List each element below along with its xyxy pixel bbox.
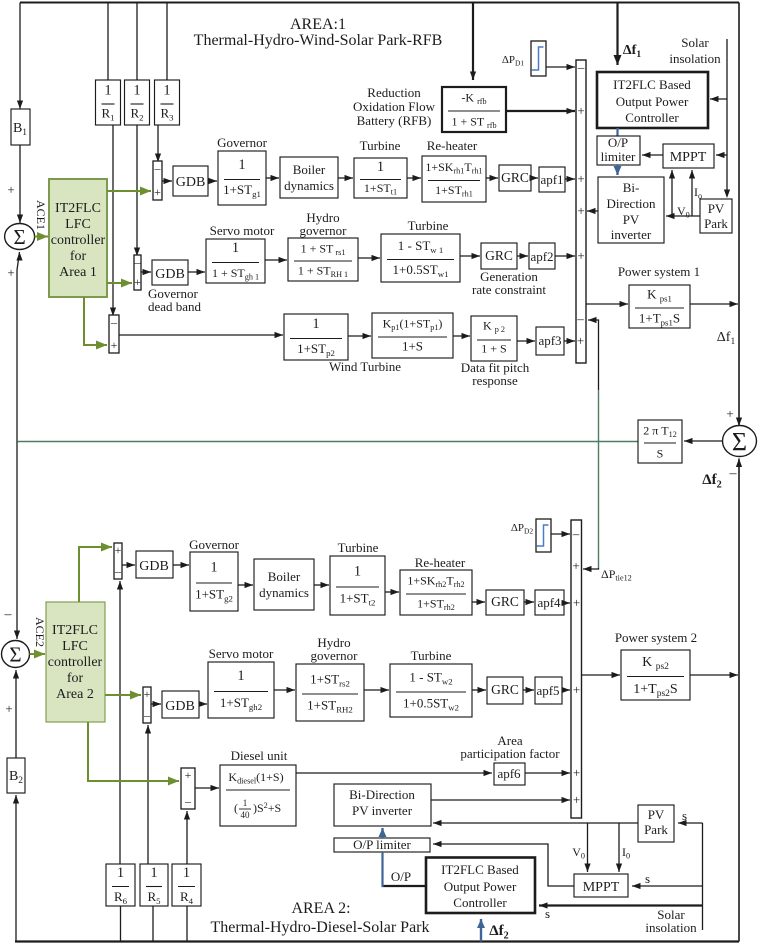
block hydro governor2 <box>296 664 364 721</box>
block 1/R5 <box>140 864 168 906</box>
wire B1 to sum1 <box>19 145 21 223</box>
wire turbine h2 to GRC5 <box>472 689 486 691</box>
svg-text:+: + <box>134 275 141 289</box>
wire sum to GDB1 <box>162 180 172 182</box>
svg-text:PV: PV <box>708 201 725 216</box>
block 1/R3 <box>155 80 180 125</box>
wire 1/R5 up to hydro sum2 <box>147 725 149 864</box>
block GDB thermal1 <box>173 166 208 196</box>
svg-text:s: s <box>545 906 550 921</box>
wire 1/R6 up to thermal sum2 <box>119 581 121 864</box>
wire GDB to servo2 <box>199 703 207 705</box>
wire 1/R2 down to hydro sum <box>136 125 138 256</box>
summing block hydro2 <box>143 687 151 723</box>
svg-text:–: – <box>4 607 13 622</box>
svg-text:apf4: apf4 <box>537 595 561 610</box>
svg-text:+: + <box>577 103 584 118</box>
svg-text:1: 1 <box>243 798 248 808</box>
wire apf5 to bar2 <box>562 689 570 691</box>
block B2 <box>7 758 25 793</box>
block GRC thermal2 <box>486 590 524 615</box>
svg-text:ACE2: ACE2 <box>33 617 47 647</box>
svg-text:Kdiesel(1+S): Kdiesel(1+S) <box>228 770 283 786</box>
svg-text:+: + <box>185 768 192 782</box>
wire B2 to sum2 <box>15 670 17 758</box>
wire GDB to servo1 <box>188 271 205 273</box>
wire drop to 1/R1 <box>107 3 109 81</box>
block hydro turbine2 <box>390 664 472 717</box>
svg-text:dynamics: dynamics <box>284 178 334 193</box>
svg-text:inverter: inverter <box>611 227 652 242</box>
block OP limiter area2 <box>334 838 430 852</box>
svg-text:GRC: GRC <box>485 248 513 263</box>
svg-text:IT2FLC Based: IT2FLC Based <box>441 862 519 877</box>
svg-text:–: – <box>110 315 118 329</box>
svg-text:1 + S: 1 + S <box>481 342 506 356</box>
svg-text:MPPT: MPPT <box>670 150 707 165</box>
block apf5 <box>535 677 562 704</box>
wire wind sum to wind turbine <box>119 334 283 336</box>
wire I0 tap area1 <box>691 170 693 216</box>
wire RFB to bar1 <box>506 110 575 112</box>
wire servo2 to hydro governor2 <box>274 689 295 691</box>
svg-text:+: + <box>154 185 161 199</box>
svg-text:1+Tps1S: 1+Tps1S <box>639 311 680 328</box>
wire apf4 to bar2 <box>564 602 570 604</box>
svg-text:1: 1 <box>163 83 170 99</box>
svg-text:controller: controller <box>48 655 103 670</box>
summing block diesel <box>181 768 195 809</box>
svg-text:1: 1 <box>232 240 239 256</box>
wire PV park2 to inverter2 <box>433 822 638 824</box>
wire boiler2 to turbine2 <box>314 584 329 586</box>
block OP limiter area1 <box>597 136 640 165</box>
svg-text:Turbine: Turbine <box>338 540 379 555</box>
svg-text:+: + <box>573 595 580 610</box>
block RFB <box>442 87 506 132</box>
block Bi-Direction PV inverter area1 <box>598 177 664 243</box>
wire OPC1 to OP limiter1 blue <box>616 128 618 136</box>
block hydro governor1 <box>288 238 358 281</box>
svg-text:+: + <box>5 701 12 716</box>
svg-text:LFC: LFC <box>62 639 88 654</box>
summing bar area2 <box>571 520 582 818</box>
block boiler dynamics 1 <box>280 157 338 198</box>
svg-text:for: for <box>67 671 84 686</box>
wire MPPT2 to limiter2 <box>433 844 574 886</box>
wire Df1 drop to OPC1 <box>616 3 618 66</box>
svg-text:participation factor: participation factor <box>460 746 560 761</box>
wire apf2 to bar1 <box>555 255 575 257</box>
wire drop to 1/R3 <box>166 3 168 81</box>
svg-text:1: 1 <box>377 159 384 175</box>
svg-text:GDB: GDB <box>165 699 195 714</box>
wire solar2 to OPC2 thick <box>539 904 703 906</box>
block apf2 <box>529 243 555 269</box>
block GRC hydro1 <box>481 243 517 269</box>
svg-text:1: 1 <box>104 83 111 99</box>
svg-text:insolation: insolation <box>645 920 697 935</box>
svg-text:1: 1 <box>354 564 361 580</box>
block boiler dynamics 2 <box>254 559 314 610</box>
wire drop to B1 <box>19 3 21 110</box>
wire ACE1 to controller1 <box>35 236 48 238</box>
svg-text:Governor: Governor <box>217 135 267 150</box>
load step DPD2 <box>536 519 551 552</box>
svg-text:Output Power: Output Power <box>616 94 689 109</box>
wire I0 tap area2 <box>618 823 620 872</box>
svg-text:40: 40 <box>241 810 251 820</box>
svg-text:–: – <box>154 161 162 175</box>
wire reheater1 to GRC1 <box>486 177 498 179</box>
block IT2FLC Based Output Power Controller area2 <box>426 858 535 914</box>
wire tie sum to T12 box <box>684 440 723 442</box>
wire ACE2 to controller2 <box>30 653 46 655</box>
summing bar area1 <box>576 60 586 363</box>
wire solar insolation line area2 <box>702 823 704 930</box>
wire PV park1 to inverter1 <box>666 215 700 217</box>
svg-text:Bi-Direction: Bi-Direction <box>349 787 415 802</box>
wire solar to OPC1 <box>710 98 727 100</box>
wire controller2 right branch to hydro sum2 <box>105 694 141 696</box>
svg-text:–: – <box>184 794 192 808</box>
svg-text:–: – <box>134 255 142 269</box>
block MPPT1 <box>663 144 714 168</box>
svg-text:Power system 2: Power system 2 <box>615 630 697 645</box>
svg-text:O/P: O/P <box>391 869 411 884</box>
wire turbine1 to reheater1 <box>407 177 421 179</box>
svg-text:O/P: O/P <box>608 135 628 150</box>
svg-text:rate constraint: rate constraint <box>472 282 546 297</box>
svg-text:Boiler: Boiler <box>293 162 326 177</box>
wire OPC2 to limiter2 blue vertical <box>381 852 383 887</box>
summing junction ACE1 <box>5 224 35 250</box>
wire hydro turbine1 to GRC2 <box>460 255 480 257</box>
load step DPD1 <box>531 41 546 76</box>
wire solar2 to MPPT2 <box>632 885 703 887</box>
wire turbine2 to reheater2 <box>385 591 399 593</box>
summing block hydro1 <box>134 255 141 290</box>
block GRC hydro2 <box>487 677 523 704</box>
wire rise to B2 <box>15 795 17 942</box>
svg-text:IT2FLC: IT2FLC <box>52 623 98 638</box>
svg-text:Σ: Σ <box>13 225 25 249</box>
wire diesel to apf6 <box>296 772 492 774</box>
wire servo1 to hydro governor1 <box>265 259 287 261</box>
block tie line 2piT12/S <box>638 420 682 463</box>
wire 1/R6 to bottom bus <box>120 906 122 942</box>
svg-text:+: + <box>573 682 580 697</box>
svg-text:Area 1: Area 1 <box>59 265 97 280</box>
svg-text:Battery (RFB): Battery (RFB) <box>357 113 432 128</box>
svg-text:MPPT: MPPT <box>583 880 620 895</box>
svg-text:+: + <box>573 765 580 780</box>
wire bar1 to Kps1 <box>586 303 628 305</box>
svg-text:governor: governor <box>300 223 348 238</box>
svg-text:dynamics: dynamics <box>259 585 309 600</box>
wire GRC4 to apf4 <box>524 601 534 603</box>
svg-text:1: 1 <box>210 560 217 576</box>
block 1/R4 <box>172 864 201 906</box>
svg-text:controller: controller <box>51 233 106 248</box>
block Kps1 <box>629 285 690 328</box>
block 1/R1 <box>96 80 121 125</box>
wire DPD2 to bar2 <box>551 533 570 535</box>
svg-text:Direction: Direction <box>606 196 656 211</box>
svg-text:+: + <box>111 338 118 352</box>
svg-text:s: s <box>682 808 687 823</box>
wire solar2 into PV park2 <box>678 822 703 824</box>
svg-text:Servo motor: Servo motor <box>209 646 274 661</box>
svg-text:O/P limiter: O/P limiter <box>353 837 411 852</box>
svg-text:+: + <box>7 265 14 280</box>
svg-text:Oxidation Flow: Oxidation Flow <box>353 99 436 114</box>
svg-text:+: + <box>115 543 122 557</box>
wire tie feedback up into sum1 <box>17 252 20 442</box>
svg-text:GDB: GDB <box>176 175 206 190</box>
block PV Park area2 <box>638 805 674 842</box>
svg-text:–: – <box>729 466 738 481</box>
block servo motor1 <box>206 239 265 283</box>
svg-text:GDB: GDB <box>139 559 169 574</box>
svg-text:limiter: limiter <box>601 149 636 164</box>
wire 1/R1 down to wind sum <box>112 125 114 316</box>
block re-heater1 <box>422 156 486 202</box>
wire hydro sum2 to GDB <box>151 703 161 705</box>
block data fit pitch response <box>471 316 517 361</box>
svg-text:PV: PV <box>623 212 640 227</box>
svg-text:dead band: dead band <box>148 299 202 314</box>
wire 1/R4 to bottom bus <box>186 906 188 942</box>
svg-text:Bi-: Bi- <box>623 180 640 195</box>
wire Df2 up into tie sum <box>738 459 740 676</box>
svg-text:+: + <box>7 182 14 197</box>
wire V0 tap area2 <box>587 823 589 872</box>
svg-text:apf6: apf6 <box>497 766 521 781</box>
svg-text:1: 1 <box>237 668 244 684</box>
wire data fit to apf3 <box>517 340 535 342</box>
wire controller1 to thermal sum <box>107 190 151 192</box>
svg-text:apf1: apf1 <box>540 172 563 187</box>
block turbine2 <box>330 556 385 615</box>
wire top Df1 bus <box>20 2 739 4</box>
svg-text:PV: PV <box>648 807 665 822</box>
block diesel unit <box>220 765 296 826</box>
svg-text:1+Tps2S: 1+Tps2S <box>633 682 677 699</box>
block GRC thermal1 <box>499 165 531 191</box>
svg-text:response: response <box>472 373 518 388</box>
svg-text:Area 2: Area 2 <box>56 687 94 702</box>
summing block thermal1 <box>153 161 162 200</box>
summing junction ACE2 <box>2 641 30 668</box>
block apf4 <box>535 590 564 615</box>
wire DPD1 to bar1 <box>546 66 575 68</box>
wire GRC2 to apf2 <box>517 255 528 257</box>
wire GDB1 to governor1 <box>208 180 217 182</box>
wire thermal sum2 to GDB <box>122 564 135 566</box>
wire 1/R3 down to thermal sum <box>157 125 159 162</box>
svg-text:1: 1 <box>312 316 319 332</box>
svg-text:Reduction: Reduction <box>367 85 421 100</box>
block Kp1 <box>372 313 453 358</box>
wire wind turbine to Kp1 <box>348 335 371 337</box>
wire tie line horizontal <box>17 441 638 443</box>
block servo motor2 <box>208 662 274 718</box>
summing block thermal2 <box>114 543 122 579</box>
svg-text:Controller: Controller <box>625 110 679 125</box>
svg-text:Re-heater: Re-heater <box>427 138 478 153</box>
svg-text:Solar: Solar <box>681 35 709 50</box>
svg-text:Re-heater: Re-heater <box>415 555 466 570</box>
wire controller1 to hydro sum <box>107 282 132 284</box>
wire tie stub into bar2 <box>583 568 599 569</box>
block turbine1 <box>354 158 407 198</box>
summing junction tie <box>723 426 757 457</box>
svg-text:1: 1 <box>117 865 124 881</box>
svg-text:apf5: apf5 <box>536 683 559 698</box>
wire apf6 to bar2 <box>525 772 570 774</box>
block hydro turbine1 <box>381 234 460 282</box>
svg-text:GRC: GRC <box>491 682 519 697</box>
wire 1/R4 up to diesel sum <box>186 811 188 864</box>
svg-text:Controller: Controller <box>453 895 507 910</box>
svg-text:for: for <box>70 249 87 264</box>
block IT2FLC LFC controller for Area 1 <box>49 179 107 297</box>
svg-text:+: + <box>577 248 584 263</box>
svg-text:Servo motor: Servo motor <box>210 223 275 238</box>
block GDB hydro2 <box>162 691 199 718</box>
wire controller2 bottom branch to diesel sum <box>88 722 179 781</box>
wire tie down into sum2 <box>16 442 18 640</box>
svg-text:Turbine: Turbine <box>408 218 449 233</box>
block IT2FLC LFC controller for Area 2 <box>46 602 105 722</box>
svg-text:–: – <box>572 526 580 541</box>
wire 1/R5 to bottom bus <box>152 906 154 942</box>
wire MPPT1 to limiter1 <box>642 154 663 156</box>
svg-text:1: 1 <box>150 865 157 881</box>
wire governor1 to boiler1 <box>266 177 279 179</box>
svg-text:Park: Park <box>704 216 728 231</box>
svg-text:–: – <box>114 564 122 578</box>
wire Df2 up into OPC2 blue <box>480 919 482 942</box>
wire V0 tap area1 <box>671 170 673 216</box>
svg-text:+: + <box>573 792 580 807</box>
svg-text:IT2FLC: IT2FLC <box>55 201 101 216</box>
summing block wind1 <box>109 315 119 353</box>
wire apf3 to bar1 <box>564 340 575 342</box>
block IT2FLC Based Output Power Controller area1 <box>597 72 708 128</box>
svg-text:+: + <box>144 687 151 701</box>
block governor2 <box>190 552 238 611</box>
svg-text:Output Power: Output Power <box>444 879 517 894</box>
wire GRC5 to apf5 <box>523 689 534 691</box>
wire tie feedback green vertical <box>598 390 600 568</box>
wire inverter1 to bar1 <box>587 210 598 212</box>
svg-text:Turbine: Turbine <box>360 138 401 153</box>
svg-text:Diesel unit: Diesel unit <box>231 748 288 763</box>
svg-text:+: + <box>577 333 584 348</box>
wire right border Df1 down to tie sum <box>738 3 740 305</box>
block MPPT2 <box>574 874 628 897</box>
wire hydro governor1 to hydro turbine1 <box>358 257 380 259</box>
wire Df1 bus down into RFB <box>472 3 474 81</box>
svg-text:AREA:1: AREA:1 <box>290 16 346 33</box>
wire controller2 top branch to thermal sum2 <box>79 547 112 602</box>
wire limiter1 to inverter1 blue <box>616 165 618 175</box>
wire OPC2 output black <box>382 885 427 887</box>
wire GDB to governor2 <box>173 564 189 566</box>
block GDB thermal2 <box>136 551 173 578</box>
block 1/R6 <box>106 864 135 906</box>
svg-text:apf2: apf2 <box>530 249 553 264</box>
wire controller1 bottom to wind sum <box>84 297 107 345</box>
svg-text:+: + <box>577 171 584 186</box>
svg-text:1: 1 <box>183 865 190 881</box>
svg-text:PV inverter: PV inverter <box>352 803 413 818</box>
svg-text:1: 1 <box>238 157 245 173</box>
svg-text:Governor: Governor <box>189 537 239 552</box>
svg-text:LFC: LFC <box>65 217 91 232</box>
wire hydro governor2 to turbine h2 <box>364 689 389 691</box>
wire bar2 to Kps2 <box>582 674 621 676</box>
svg-text:+: + <box>726 406 733 421</box>
block governor1 <box>218 151 266 205</box>
block apf3 <box>536 327 564 355</box>
svg-text:Power system 1: Power system 1 <box>618 264 700 279</box>
svg-text:GRC: GRC <box>491 594 519 609</box>
wire governor2 to boiler2 <box>238 584 253 586</box>
wire solar to MPPT1 <box>716 154 727 156</box>
wire tie feedback black seg to bar1 <box>588 320 599 390</box>
block PV Park area1 <box>700 199 732 233</box>
svg-text:1: 1 <box>133 83 140 99</box>
svg-text:+: + <box>572 558 579 573</box>
svg-text:ACE1: ACE1 <box>34 200 48 230</box>
svg-text:AREA 2:: AREA 2: <box>291 900 350 917</box>
svg-text:insolation: insolation <box>669 51 721 66</box>
svg-text:S: S <box>657 447 664 461</box>
wire solar into PV park1 <box>724 190 730 199</box>
block Kps2 <box>621 650 690 700</box>
wire drop to 1/R2 <box>136 3 138 81</box>
svg-text:1+S: 1+S <box>402 339 423 354</box>
block apf1 <box>539 167 565 192</box>
wire Kps1 to right bus <box>690 303 738 305</box>
wire Kps2 to right bus <box>690 674 738 676</box>
wire hydro sum to GDB <box>141 271 151 273</box>
wire diesel sum to diesel unit <box>195 787 219 789</box>
block Bi-Direction PV inverter area2 <box>334 784 431 826</box>
svg-text:Σ: Σ <box>9 643 21 667</box>
svg-text:governor: governor <box>311 648 359 663</box>
block 1/R2 <box>125 80 150 125</box>
svg-text:Turbine: Turbine <box>411 648 452 663</box>
svg-text:Thermal-Hydro-Diesel-Solar Par: Thermal-Hydro-Diesel-Solar Park <box>210 919 429 936</box>
block apf6 <box>494 763 525 785</box>
wire limiter2 to inverter2 blue <box>381 828 383 838</box>
wire solar insolation line area1 <box>726 39 728 196</box>
svg-text:s: s <box>645 871 650 886</box>
wire inverter2 to bar2 <box>431 799 570 801</box>
svg-text:–: – <box>577 60 585 75</box>
block re-heater2 <box>400 570 472 615</box>
svg-text:+: + <box>577 203 584 218</box>
wire GRC1 to apf1 <box>531 177 538 179</box>
block wind turbine <box>284 314 348 360</box>
wire boiler1 to turbine1 <box>338 177 353 179</box>
svg-text:GDB: GDB <box>155 267 185 282</box>
svg-text:Σ: Σ <box>732 427 747 456</box>
